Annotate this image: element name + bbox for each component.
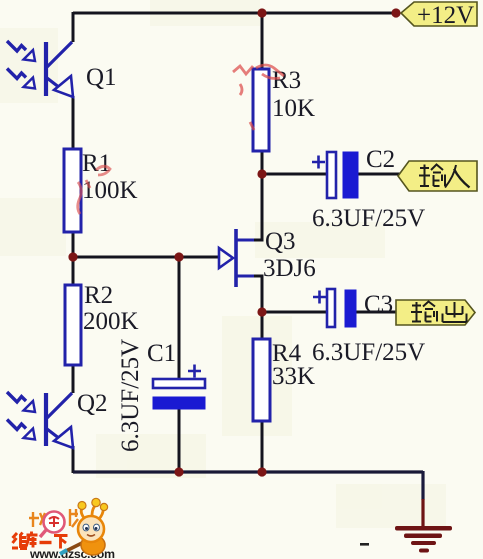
wire Q1 emitter to R1: [72, 96, 75, 150]
label C1 value: [117, 339, 144, 452]
svg-text:C3: C3: [364, 291, 393, 318]
label R2 value: [83, 282, 139, 335]
artifact dash: [360, 543, 369, 546]
node junction C1 top: [174, 252, 183, 261]
node junction R4 bottom rail: [257, 467, 266, 476]
wire R4 to bottom rail: [261, 421, 264, 472]
power callout +12V: [401, 2, 477, 29]
resistor R1: [64, 149, 81, 232]
wire bottom ground rail: [73, 470, 423, 473]
wire R2 to Q2 collector: [72, 364, 75, 393]
svg-text:6.3UF/25V: 6.3UF/25V: [117, 339, 144, 452]
label C2 value: [312, 205, 425, 232]
capacitor C3: [313, 289, 356, 327]
wire node C to C3: [262, 311, 327, 314]
svg-text:3DJ6: 3DJ6: [263, 255, 316, 282]
watermark dzsc url: [29, 547, 115, 559]
watermark red stamp near R3: [233, 65, 284, 130]
svg-text:C1: C1: [147, 340, 176, 367]
label R1 value: [82, 150, 138, 204]
phototransistor Q1: [7, 41, 73, 97]
watermark dzsc logo text 维库一下: [12, 532, 68, 549]
resistor R3: [253, 69, 269, 151]
node junction +12V tip: [391, 8, 400, 17]
wire node B to C2: [262, 173, 327, 176]
node junction top rail R3: [257, 8, 266, 17]
label R4 value: [272, 340, 315, 390]
wire Q3 source to node C: [236, 276, 262, 312]
svg-text:100K: 100K: [82, 177, 138, 204]
label Q3 value: [263, 228, 316, 282]
node B junction R3/C2/drain: [257, 169, 266, 178]
JFET Q3: [219, 229, 236, 287]
wire Q2 emitter to bottom rail: [72, 446, 75, 473]
svg-text:10K: 10K: [272, 95, 315, 122]
svg-text:Q3: Q3: [265, 228, 296, 255]
input callout 输入: [398, 161, 477, 191]
label C2: [366, 146, 395, 173]
svg-text:6.3UF/25V: 6.3UF/25V: [312, 339, 425, 366]
wire R3 to node B: [261, 150, 264, 174]
capacitor C1: [153, 365, 205, 410]
capacitor C2: [312, 152, 358, 198]
label C1: [147, 340, 176, 367]
phototransistor Q2: [7, 392, 73, 448]
wire R1 to node A to R2: [72, 231, 75, 286]
node A junction gate bus left: [68, 252, 77, 261]
svg-text:C2: C2: [366, 146, 395, 173]
node junction C1 bottom rail: [174, 467, 183, 476]
wire C1 bottom lead: [178, 408, 181, 472]
svg-text:R2: R2: [84, 282, 113, 309]
resistor R4: [253, 339, 270, 421]
label C3: [364, 291, 393, 318]
output callout 输出: [396, 300, 475, 325]
label Q2: [77, 390, 108, 417]
wire node C to R4: [261, 312, 264, 339]
watermark red stamp near R1: [78, 166, 110, 214]
svg-text:6.3UF/25V: 6.3UF/25V: [312, 205, 425, 232]
wire C1 top lead: [178, 257, 181, 379]
label R3 value: [272, 67, 315, 122]
node C junction source/C3/R4: [257, 307, 266, 316]
ground: [395, 526, 452, 553]
label C3 value: [312, 339, 425, 366]
svg-text:33K: 33K: [272, 363, 315, 390]
wire rail to R3: [261, 12, 264, 70]
svg-text:Q2: Q2: [77, 390, 108, 417]
svg-text:Q1: Q1: [86, 64, 117, 91]
label Q1: [86, 64, 117, 91]
wire top rail +12V: [73, 12, 396, 15]
svg-text:+12V: +12V: [417, 2, 474, 29]
resistor R2: [65, 285, 81, 365]
svg-text:200K: 200K: [83, 308, 139, 335]
wire gate bus from node A to Q3: [73, 256, 219, 259]
wire C3 to output callout: [356, 311, 397, 314]
wire Q1 collector to rail: [72, 12, 75, 42]
wire C2 to input callout: [357, 173, 400, 176]
watermark dzsc logo text 找芯片: [29, 509, 78, 537]
watermark mascot: [60, 498, 108, 555]
wire node B to Q3 drain: [236, 174, 262, 240]
wire ground lead: [421, 471, 424, 528]
